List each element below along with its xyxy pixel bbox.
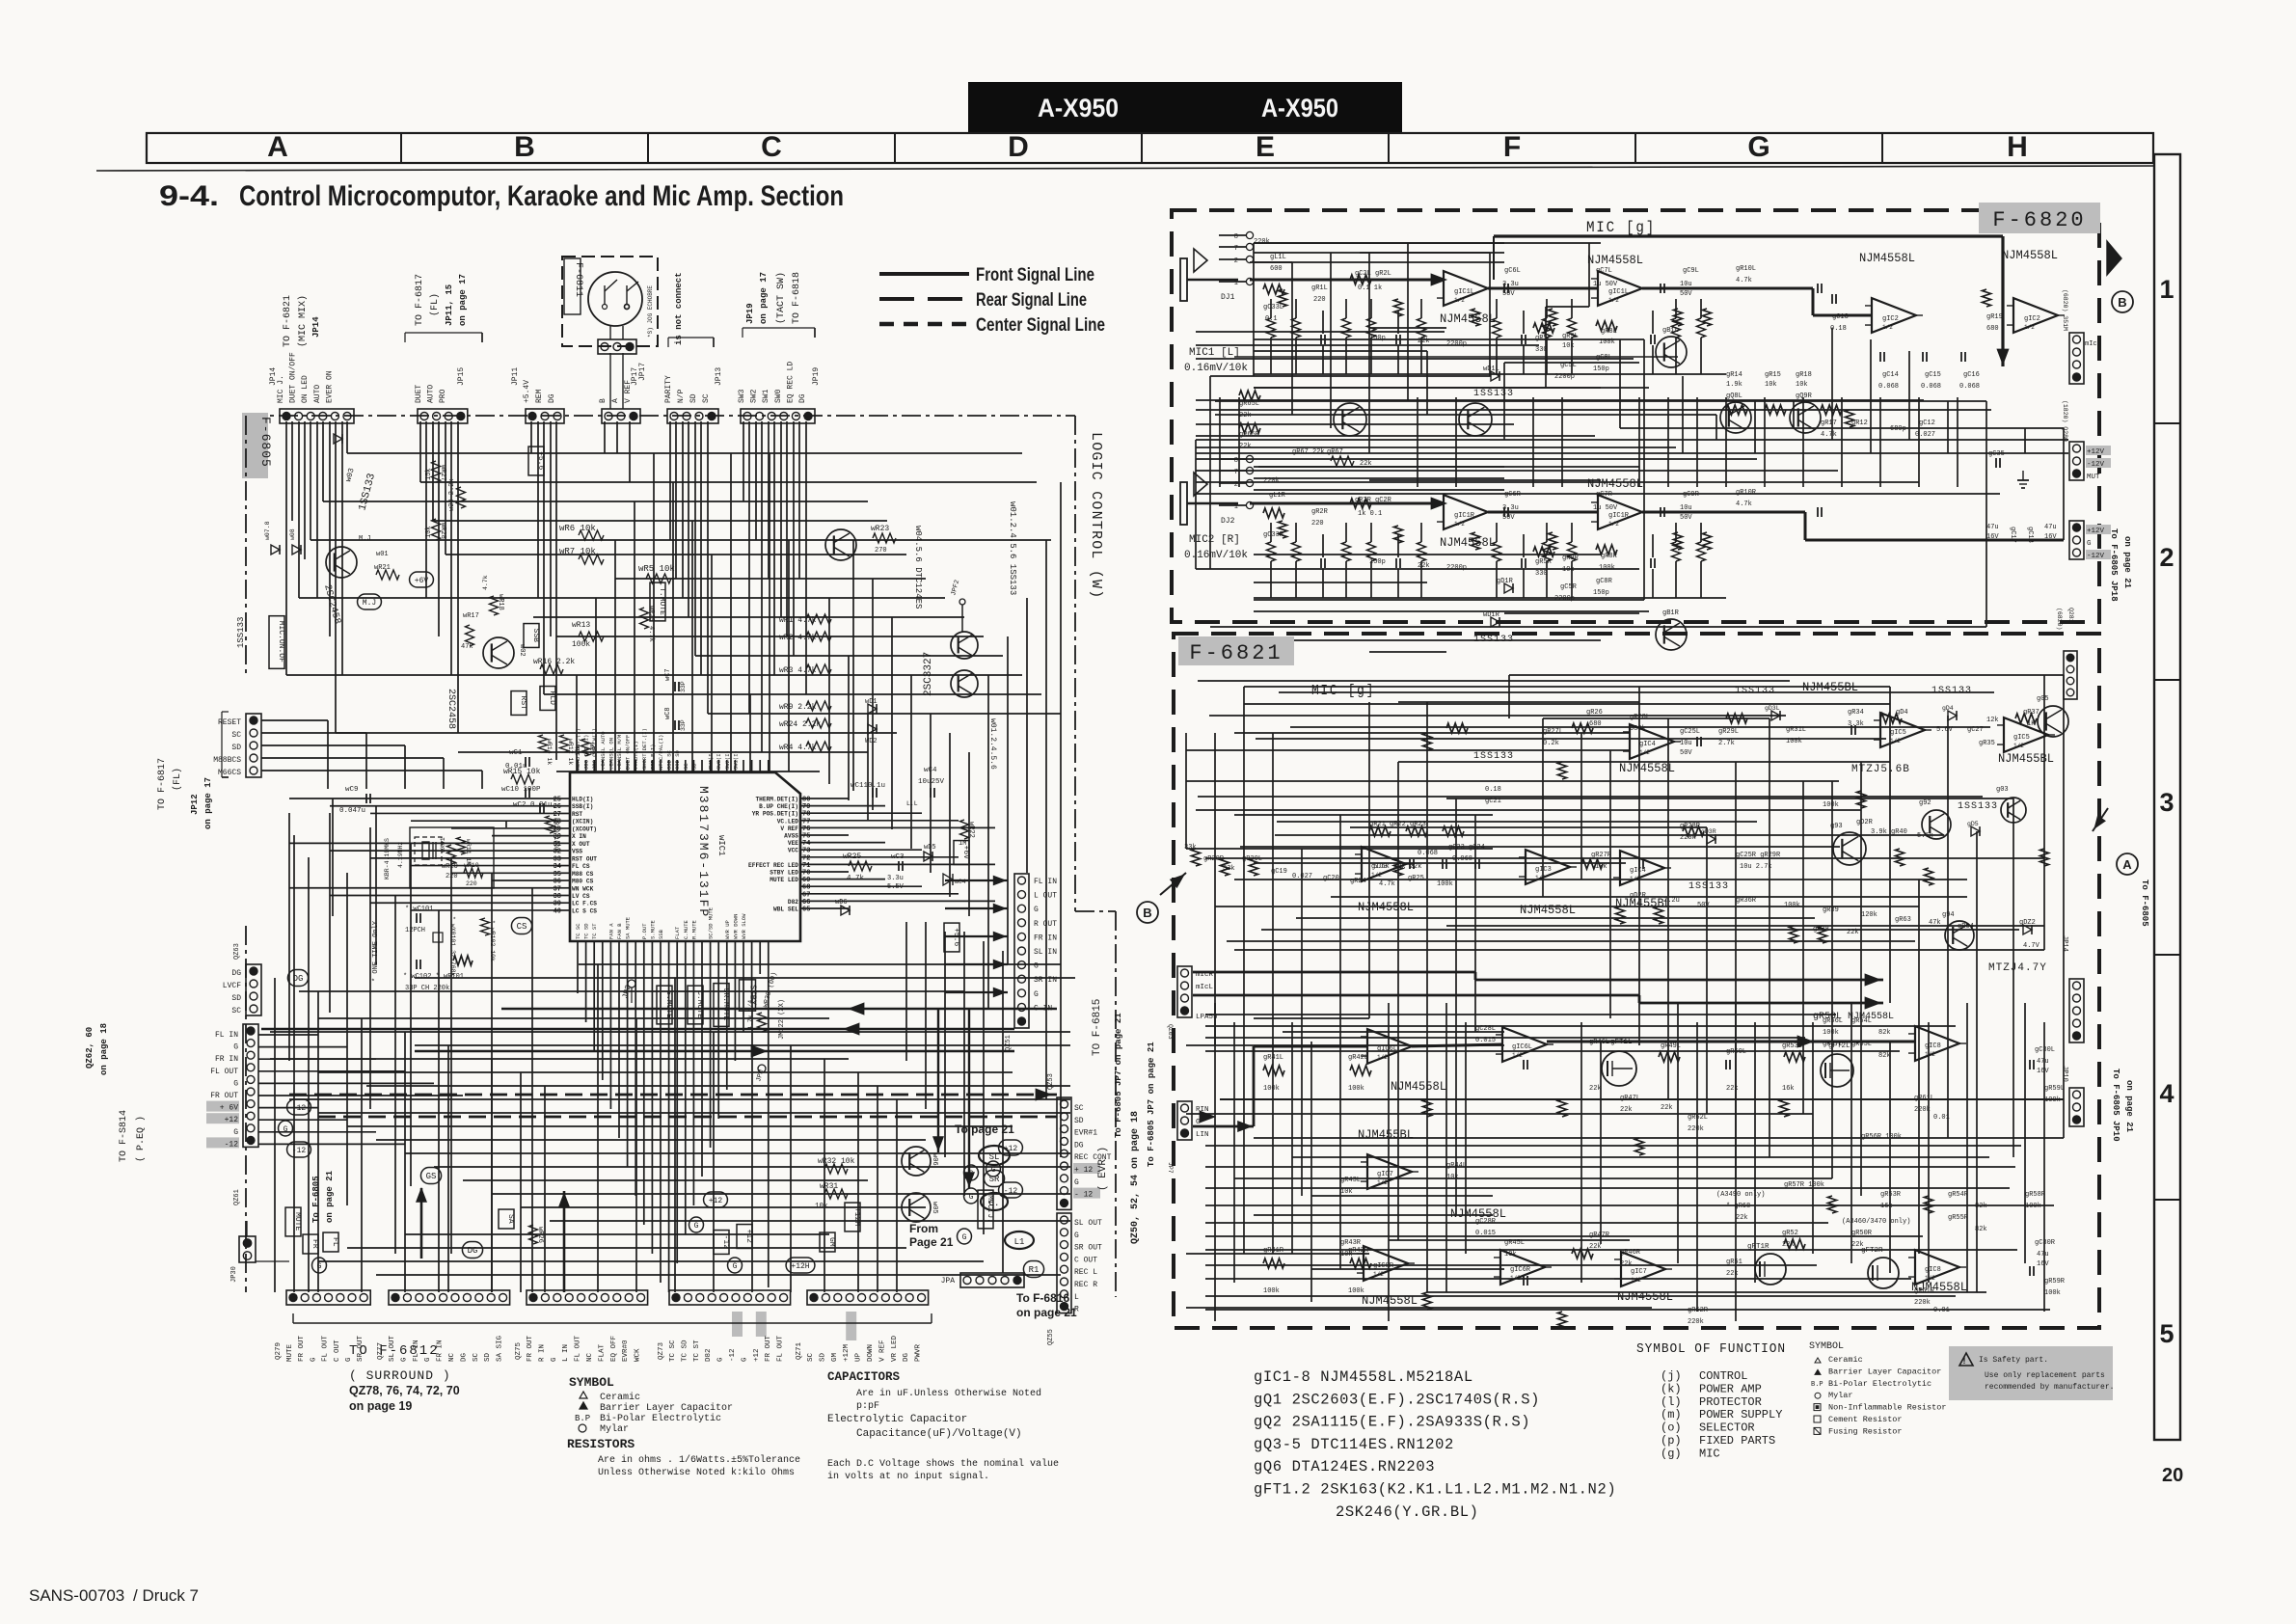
svg-text:FL IN: FL IN (1034, 878, 1057, 886)
svg-text:- 12: - 12 (1074, 1191, 1093, 1200)
svg-text:2200p: 2200p (1446, 564, 1467, 572)
svg-text:on page 21: on page 21 (2124, 1080, 2134, 1133)
svg-text:150p: 150p (1593, 589, 1609, 597)
svg-text:Non-Inflammable Resistor: Non-Inflammable Resistor (1828, 1403, 1946, 1413)
stadium C.MUTE (688, 986, 703, 1024)
svg-text:wR24 2.2k: wR24 2.2k (779, 720, 821, 729)
svg-text:wC110.1u: wC110.1u (851, 782, 885, 790)
resistor wR21 (376, 570, 399, 580)
svg-text:MIC2 [R]: MIC2 [R] (1189, 534, 1240, 546)
svg-text:QZ78, 76, 74, 72, 70: QZ78, 76, 74, 72, 70 (349, 1384, 460, 1397)
svg-text:gR67: gR67 (1327, 448, 1343, 456)
svg-text:mIcR: mIcR (2085, 340, 2102, 348)
svg-text:JP12: JP12 (190, 794, 200, 815)
connector strip right top (2069, 333, 2084, 384)
svg-text:gD2R: gD2R (1856, 819, 1874, 826)
svg-text:PARITY: PARITY (664, 375, 673, 403)
svg-text:QZ75: QZ75 (515, 1341, 523, 1360)
svg-text:-12: -12 (721, 1235, 730, 1250)
svg-text:gR54R: gR54R (1948, 1191, 1969, 1199)
svg-text:(m): (m) (1661, 1408, 1682, 1421)
svg-text:20: 20 (2162, 1465, 2183, 1486)
svg-text:F-6811: F-6811 (573, 262, 583, 297)
svg-text:SW3: SW3 (738, 389, 746, 403)
svg-text:JP14: JP14 (269, 367, 278, 386)
svg-text:gR42L: gR42L (1348, 1054, 1368, 1062)
svg-text:w01.2.4.5.6 1SS133: w01.2.4.5.6 1SS133 (1008, 501, 1017, 595)
svg-text:FR OUT: FR OUT (765, 1335, 772, 1362)
block border dash-dot left (245, 416, 247, 675)
svg-text:1SS133: 1SS133 (1958, 801, 1998, 812)
svg-text:QZ51: QZ51 (1005, 1035, 1013, 1051)
transistor gQ8L (1720, 402, 1751, 433)
svg-text:SC: SC (473, 1352, 480, 1362)
svg-text:SC/SD MUTE: SC/SD MUTE (708, 907, 715, 939)
svg-text:FR IN: FR IN (215, 1055, 238, 1064)
svg-text:EQ REC LD: EQ REC LD (786, 362, 795, 403)
resistor wR12 1k (560, 735, 569, 752)
svg-text:DG: DG (468, 1246, 478, 1256)
svg-text:( P.EQ ): ( P.EQ ) (135, 1116, 147, 1162)
svg-text:gIC2: gIC2 (1882, 315, 1899, 323)
component cluster row L (1267, 318, 1276, 338)
connector strip JP at 6821 top right (2064, 651, 2077, 699)
svg-text:B: B (1143, 906, 1151, 920)
svg-text:V REF: V REF (780, 826, 798, 832)
svg-text:gR47L: gR47L (1620, 1095, 1640, 1102)
svg-text:gR20R: gR20R (1203, 855, 1225, 863)
svg-text:C OUT: C OUT (334, 1340, 341, 1362)
svg-text:gR42R: gR42R (1348, 1247, 1369, 1255)
svg-text:100k: 100k (1348, 1085, 1364, 1093)
svg-text:22k: 22k (1620, 1260, 1633, 1268)
svg-text:gR20L: gR20L (1242, 855, 1262, 863)
diode wD2 (868, 724, 877, 734)
svg-text:1/2: 1/2 (1373, 1271, 1384, 1278)
svg-text:G: G (310, 1357, 317, 1362)
svg-text:( SURROUND ): ( SURROUND ) (349, 1368, 451, 1383)
svg-text:Mylar: Mylar (600, 1423, 629, 1435)
resistor wR11 1M (457, 837, 466, 854)
long rail under mid row (1220, 1098, 2064, 1100)
svg-text:gR65R: gR65R (1239, 431, 1260, 439)
svg-text:RST OUT: RST OUT (572, 855, 597, 862)
svg-text:SW0: SW0 (774, 389, 783, 403)
svg-text:wR31: wR31 (820, 1182, 838, 1191)
label B circle F-6821 (1137, 902, 1158, 923)
svg-text:wD5: wD5 (924, 844, 936, 852)
svg-text:SD: SD (231, 994, 241, 1003)
mid band extra wires (1196, 331, 1445, 333)
svg-text:100k: 100k (1823, 801, 1839, 809)
capacitor wC102 33P CH (416, 960, 418, 969)
svg-text:w04.5.6 DTC124ES: w04.5.6 DTC124ES (913, 526, 923, 609)
bottom connector strip Q279 (286, 1290, 370, 1305)
svg-text:wC7: wC7 (664, 668, 672, 681)
capacitor wC110.1u (872, 788, 874, 798)
svg-text:1: 1 (1234, 503, 1238, 511)
svg-text:SD: SD (484, 1352, 492, 1362)
resistor wR20 2.2k (457, 487, 466, 508)
bottom connector strip Q273 (669, 1290, 791, 1305)
svg-text:Page 21: Page 21 (909, 1235, 954, 1249)
svg-text:NJM4558L: NJM4558L (1440, 536, 1496, 550)
op-amp gIC6L a (1367, 1029, 1412, 1064)
svg-text:40: 40 (554, 907, 561, 915)
svg-text:wR15 10k: wR15 10k (503, 768, 541, 776)
connector JP12 ladder (246, 714, 261, 777)
svg-text:100k: 100k (2044, 1289, 2061, 1297)
stadium FR (303, 1234, 318, 1254)
svg-text:gR41R: gR41R (1263, 1247, 1284, 1255)
svg-text:(FL): (FL) (172, 768, 183, 791)
svg-text:STBY: STBY (747, 985, 757, 1006)
svg-text:wC2 0.01u: wC2 0.01u (513, 801, 553, 809)
svg-text:( EVR ): ( EVR ) (1097, 1147, 1109, 1191)
svg-text:gR17: gR17 (1821, 420, 1837, 427)
svg-text:16V: 16V (1986, 533, 1999, 541)
svg-text:*S) JOG ECHOBRE: *S) JOG ECHOBRE (647, 285, 654, 338)
svg-text:HLD(I): HLD(I) (572, 797, 593, 803)
svg-text:R.MUTE: R.MUTE (690, 919, 697, 939)
svg-text:wR17: wR17 (463, 612, 479, 620)
svg-text:* wX0101 32.768k: * wX0101 32.768k (449, 916, 456, 977)
svg-text:Is Safety part.: Is Safety part. (1979, 1356, 2048, 1365)
svg-text:WVR UP: WVR UP (724, 920, 731, 939)
connector box F-6811 (562, 257, 658, 346)
svg-text:NJM455BL: NJM455BL (1358, 1128, 1414, 1142)
svg-text:WD2: WD2 (865, 738, 878, 745)
svg-text:1/2: 1/2 (1377, 1054, 1388, 1061)
svg-text:7: 7 (1234, 245, 1238, 253)
svg-text:MTZJ4.7Y: MTZJ4.7Y (1988, 962, 2047, 974)
svg-text:gIC4: gIC4 (1639, 741, 1656, 748)
diode gD1R 1SS133 (1491, 617, 1499, 627)
connector RIN LIN (1177, 1101, 1192, 1140)
svg-text:To F-6805: To F-6805 (311, 1176, 321, 1223)
svg-text:G: G (551, 1357, 558, 1362)
svg-text:M38173M6-131FP: M38173M6-131FP (696, 786, 711, 918)
op-amp gIC5 b (2004, 717, 2048, 752)
arrow mid F-6820 (1234, 356, 1678, 358)
svg-text:16V: 16V (2044, 533, 2057, 541)
svg-text:SR OUT: SR OUT (1074, 1244, 1102, 1253)
svg-text:5.6k: 5.6k (1917, 832, 1933, 840)
svg-text:10u 2.7k: 10u 2.7k (1740, 863, 1772, 871)
stadium G left (279, 1121, 293, 1136)
diode wD4 (943, 874, 953, 885)
svg-text:wR18: wR18 (497, 594, 504, 610)
connector JP17 under F-6811 (598, 339, 636, 354)
svg-text:w02: w02 (518, 644, 526, 657)
svg-text:MUTE: MUTE (286, 1343, 294, 1362)
svg-text:SYMBOL: SYMBOL (1809, 1341, 1844, 1352)
svg-text:-12: -12 (225, 1140, 239, 1149)
svg-text:gIC1R: gIC1R (1454, 512, 1475, 520)
resistor wR25 4.7k (849, 861, 872, 871)
svg-text:REC R: REC R (1074, 1281, 1097, 1289)
resistor wR22 1M (960, 820, 969, 839)
svg-text:JP17: JP17 (638, 363, 647, 381)
svg-text:+5.4V: +5.4V (523, 380, 531, 403)
svg-text:+5.6: +5.6 (536, 451, 545, 470)
svg-text:MIC.J.: MIC.J. (986, 1195, 994, 1223)
svg-text:G: G (694, 1222, 699, 1231)
svg-text:wC10 100P: wC10 100P (501, 786, 541, 794)
diodes 1SS133 bottom F-6820 (1504, 583, 1513, 593)
svg-text:FR: FR (311, 1239, 319, 1249)
svg-text:wD1: wD1 (865, 698, 878, 706)
svg-text:1/2: 1/2 (1608, 297, 1619, 304)
svg-text:AUTO: AUTO (427, 385, 436, 403)
svg-text:2: 2 (2159, 543, 2174, 572)
svg-text:16V: 16V (2037, 1068, 2049, 1075)
svg-text:(FL): (FL) (429, 293, 441, 316)
svg-text:G: G (1034, 990, 1039, 999)
svg-text:FAN B: FAN B (616, 923, 623, 939)
svg-text:gR2R: gR2R (1311, 508, 1329, 516)
svg-text:gR46L: gR46L (1589, 1039, 1609, 1046)
stadium R1 (1023, 1261, 1043, 1278)
svg-text:gIC1-8 NJM4558L.M5218AL: gIC1-8 NJM4558L.M5218AL (1254, 1368, 1473, 1386)
capacitor wC7 33P (674, 682, 676, 691)
svg-text:0.16mV/10k: 0.16mV/10k (1184, 550, 1248, 561)
capacitor wC10 100P (525, 788, 527, 798)
svg-text:gFT1L: gFT1L (1610, 1039, 1633, 1046)
board label F-6820 (1979, 203, 2100, 233)
svg-text:gIC5: gIC5 (2013, 734, 2030, 742)
svg-text:2: 2 (1234, 257, 1238, 265)
svg-text:DG: DG (231, 969, 241, 978)
svg-text:1SS133: 1SS133 (1688, 881, 1729, 892)
svg-text:G: G (2087, 540, 2092, 548)
svg-text:4.19MHz: 4.19MHz (397, 842, 404, 868)
svg-text:wR26: wR26 (536, 1227, 544, 1243)
svg-text:wR32 10k: wR32 10k (818, 1157, 855, 1166)
svg-text:REC L: REC L (1074, 1268, 1097, 1277)
transistor w06 (902, 1147, 931, 1176)
svg-text:TC ST: TC ST (591, 923, 598, 939)
svg-text:330: 330 (1535, 346, 1548, 354)
svg-text:R OUT: R OUT (1034, 920, 1057, 929)
svg-text:(6820) 351M: (6820) 351M (2062, 289, 2068, 331)
svg-text:220k: 220k (1688, 1318, 1704, 1326)
svg-text:gR37: gR37 (2023, 709, 2039, 717)
top column ruler A-H (147, 133, 2153, 163)
svg-text:22k: 22k (1851, 1241, 1864, 1249)
svg-text:QZ50, 52, 54 on page 18: QZ50, 52, 54 on page 18 (1130, 1111, 1141, 1244)
svg-text:+12: +12 (709, 1197, 723, 1205)
svg-text:STBY LED: STBY LED (770, 870, 798, 877)
svg-text:gC5R: gC5R (1560, 583, 1578, 591)
svg-text:wR2 4.7k: wR2 4.7k (779, 634, 817, 642)
svg-text:POWER SUPPLY: POWER SUPPLY (1699, 1408, 1782, 1421)
svg-text:TO F-6815: TO F-6815 (1092, 999, 1103, 1056)
svg-text:680p: 680p (1890, 425, 1906, 433)
svg-text:X IN: X IN (572, 833, 586, 840)
svg-text:2SC3327: 2SC3327 (923, 652, 934, 696)
svg-text:MIC [g]: MIC [g] (1586, 219, 1656, 236)
svg-text:gR58R: gR58R (2025, 1191, 2046, 1199)
svg-text:2200p: 2200p (1446, 340, 1467, 348)
svg-text:2SC2458: 2SC2458 (446, 689, 456, 729)
svg-text:C.MUTE: C.MUTE (683, 919, 689, 939)
svg-text:Cement Resistor: Cement Resistor (1828, 1415, 1903, 1424)
svg-text:SD: SD (689, 393, 698, 403)
ruler underline (96, 166, 2153, 171)
svg-text:JP14: JP14 (311, 316, 321, 338)
svg-text:gC30R: gC30R (2035, 1239, 2056, 1247)
svg-text:LOGIC CONTROL (W): LOGIC CONTROL (W) (1088, 432, 1104, 599)
svg-text:wX01: wX01 (440, 837, 446, 853)
svg-text:NJM4558L: NJM4558L (1619, 762, 1675, 775)
svg-text:47u: 47u (2037, 1251, 2049, 1259)
op-amp gIC7 a (1367, 1154, 1412, 1189)
svg-text:(p): (p) (1661, 1434, 1682, 1448)
F-6820 wires vertical (1253, 243, 1255, 376)
label A circle (2117, 853, 2138, 875)
svg-text:gD3L: gD3L (1765, 705, 1780, 712)
stadium S.MUTE (657, 986, 672, 1024)
svg-text:gC6L: gC6L (1504, 267, 1521, 275)
svg-text:P.OUT: P.OUT (641, 923, 648, 939)
svg-text:wC9: wC9 (345, 786, 359, 794)
svg-text:B.P: B.P (1811, 1381, 1823, 1389)
stadium SR (984, 1171, 1004, 1187)
R stage feedback hlines (1254, 466, 1504, 468)
svg-text:wR29 4.7k: wR29 4.7k (647, 606, 655, 642)
svg-text:WVR SLOW: WVR SLOW (741, 913, 747, 939)
svg-text:9-4.: 9-4. (159, 180, 219, 212)
svg-text:Control Microcomputor, Karaoke: Control Microcomputor, Karaoke and Mic A… (239, 180, 844, 212)
resistor wR7 10k (579, 555, 604, 564)
arrow up To F-6805 (420, 1188, 423, 1259)
svg-text:gC8L: gC8L (1596, 354, 1612, 362)
svg-text:FAN A: FAN A (608, 923, 614, 939)
stadium G rr (986, 1161, 1001, 1177)
svg-text:gR67 22k: gR67 22k (1292, 448, 1325, 456)
block border dash-dot right (1074, 416, 1076, 911)
svg-text:1: 1 (2159, 275, 2174, 304)
svg-text:wD1R: wD1R (1483, 611, 1500, 619)
resistor wR26 (529, 1225, 538, 1244)
svg-text:10k: 10k (1796, 381, 1808, 389)
svg-text:gR18: gR18 (1796, 371, 1812, 379)
svg-text:wR6 10k: wR6 10k (559, 524, 596, 533)
svg-text:FR IN: FR IN (1034, 934, 1057, 942)
svg-text:TO F-6821: TO F-6821 (283, 295, 293, 347)
svg-text:SL OUT: SL OUT (1074, 1219, 1102, 1228)
svg-text:wR10: wR10 (464, 862, 479, 869)
op-amp gIC8 b (1915, 1250, 1959, 1285)
svg-text:gR25: gR25 (1408, 875, 1424, 882)
thick mic lines (1193, 971, 1475, 974)
svg-text:F: F (1503, 131, 1521, 163)
svg-text:(l): (l) (1661, 1395, 1682, 1409)
svg-text:G: G (233, 1043, 238, 1052)
svg-text:47u: 47u (2044, 524, 2057, 531)
svg-text:gR56L: gR56L (1823, 1017, 1843, 1025)
label JPM (758, 1065, 766, 1072)
svg-text:RIN: RIN (1196, 1106, 1209, 1114)
signal path L thick (1250, 279, 1444, 282)
svg-text:10k: 10k (1765, 381, 1777, 389)
svg-text:DG: DG (460, 1352, 468, 1362)
svg-text:wR9 2.2k: wR9 2.2k (779, 703, 817, 712)
svg-text:gIC5: gIC5 (1890, 729, 1906, 737)
svg-text:82k: 82k (1975, 1226, 1987, 1233)
svg-text:gR55L: gR55L (1851, 1041, 1872, 1048)
svg-text:-12V: -12V (2087, 553, 2105, 560)
svg-text:10u25V: 10u25V (918, 778, 945, 786)
resistor wR27 (432, 461, 441, 482)
op-amp gIC4 b (1620, 851, 1664, 885)
svg-text:EQ OFF: EQ OFF (610, 1336, 618, 1362)
svg-text:gR29L: gR29L (1718, 728, 1739, 736)
mic jack DJ2 (1180, 482, 1187, 525)
svg-text:100k: 100k (1263, 1085, 1280, 1093)
svg-text:22k: 22k (1589, 1085, 1602, 1093)
svg-text:1k 0.1: 1k 0.1 (1358, 510, 1382, 518)
svg-text:E: E (1256, 131, 1275, 163)
svg-text:220k: 220k (1254, 238, 1270, 246)
svg-text:gR62R: gR62R (1688, 1307, 1709, 1314)
svg-text:SC: SC (231, 1007, 241, 1015)
svg-text:JPA: JPA (941, 1277, 956, 1286)
svg-text:5: 5 (2159, 1319, 2174, 1348)
svg-text:gR57L: gR57L (1823, 1041, 1843, 1048)
svg-text:PROTECTOR: PROTECTOR (1699, 1395, 1762, 1409)
arrow flag top right (2107, 241, 2121, 275)
F-6821 wires vertical (1185, 733, 1187, 849)
svg-text:F-6820: F-6820 (1992, 208, 2086, 232)
signal path L top return thick (1494, 234, 2003, 237)
svg-text:1/2: 1/2 (1377, 1179, 1388, 1186)
svg-text:82k: 82k (1975, 1203, 1987, 1210)
svg-text:12k: 12k (1986, 717, 1999, 724)
svg-text:G: G (233, 1128, 238, 1137)
svg-text:X OUT: X OUT (572, 841, 590, 848)
ladder FL IN right (1014, 874, 1029, 1028)
svg-text:65: 65 (802, 907, 810, 914)
svg-text:gC7R: gC7R (1596, 491, 1613, 499)
svg-text:220: 220 (466, 880, 477, 887)
svg-text:L OUT: L OUT (1034, 892, 1057, 901)
svg-text:gR19: gR19 (1986, 313, 2003, 321)
svg-text:0.18: 0.18 (1830, 325, 1847, 333)
stadium DG bottom (462, 1242, 482, 1259)
svg-text:p:pF: p:pF (856, 1401, 879, 1412)
svg-text:gIC8: gIC8 (1925, 1042, 1941, 1050)
svg-text:8: 8 (1234, 233, 1238, 241)
svg-text:recommended by manufacturer.: recommended by manufacturer. (1985, 1383, 2114, 1392)
svg-text:wR12 1k: wR12 1k (567, 739, 574, 765)
svg-text:22k: 22k (1736, 1214, 1748, 1222)
svg-text:3.3u: 3.3u (887, 875, 904, 882)
svg-text:TC SC: TC SC (669, 1340, 677, 1362)
svg-text:gC8R: gC8R (1596, 578, 1613, 585)
svg-text:QZ62, 60: QZ62, 60 (85, 1027, 95, 1069)
svg-text:4.7k: 4.7k (1821, 431, 1837, 439)
stadium GM (820, 1232, 835, 1252)
svg-text:(1820) Q280: (1820) Q280 (2062, 400, 2068, 442)
svg-text:NJM4558L: NJM4558L (2002, 249, 2058, 262)
svg-text:To F-6805 JP7 on page 21: To F-6805 JP7 on page 21 (1114, 1013, 1123, 1138)
svg-text:0.18: 0.18 (1485, 786, 1501, 794)
svg-text:gR65L: gR65L (1239, 400, 1259, 408)
resistor wR14 1k (539, 735, 548, 752)
svg-text:100k: 100k (2025, 1203, 2041, 1210)
